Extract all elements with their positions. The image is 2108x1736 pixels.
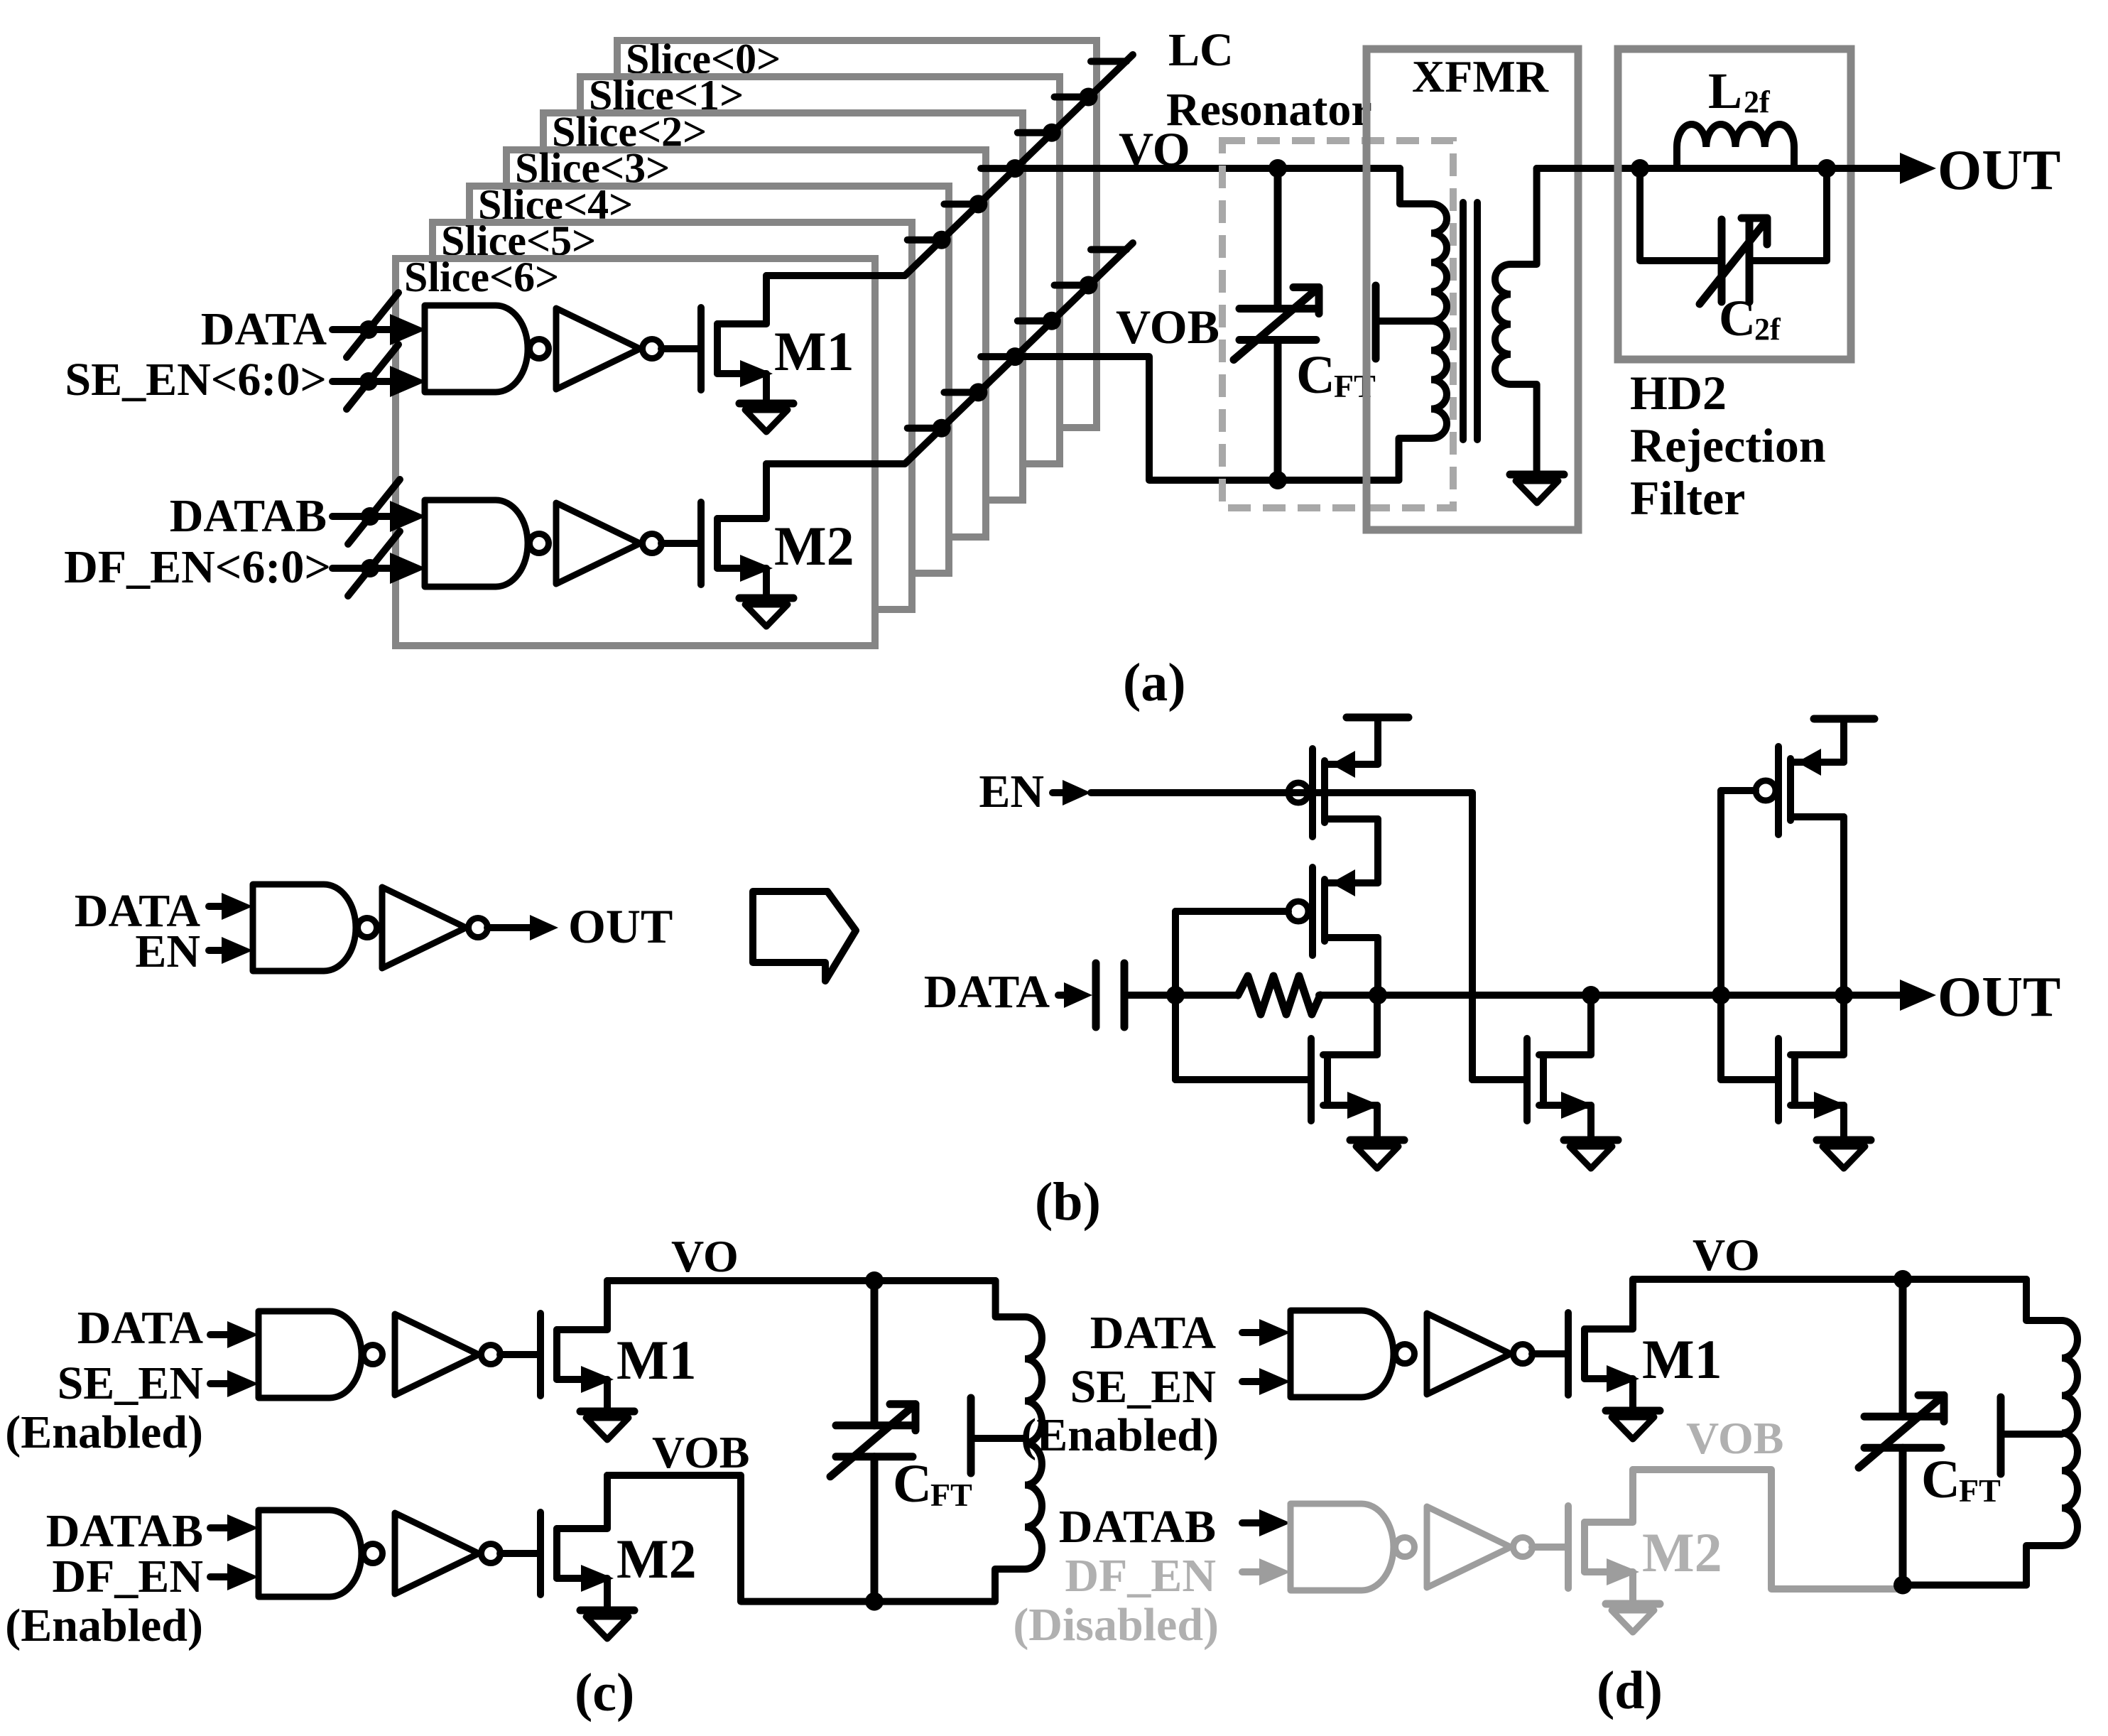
svg-text:DF_EN: DF_EN <box>1065 1550 1216 1602</box>
svg-text:(Disabled): (Disabled) <box>1013 1599 1219 1651</box>
svg-text:DF_EN<6:0>: DF_EN<6:0> <box>64 541 331 593</box>
svg-text:(b): (b) <box>1035 1172 1101 1232</box>
transistor M2 <box>701 464 773 598</box>
svg-text:SE_EN: SE_EN <box>1070 1361 1216 1413</box>
svg-text:HD2: HD2 <box>1630 366 1727 420</box>
node label DATAB (a) <box>170 490 327 542</box>
wire DATA input (a) <box>332 293 426 357</box>
capacitor DATA coupling <box>1096 963 1124 1027</box>
svg-text:VOB: VOB <box>652 1427 749 1477</box>
label CFT (c) <box>893 1454 972 1514</box>
wire SE_EN input (d) <box>1242 1368 1291 1395</box>
ground M2 (d) <box>1606 1604 1660 1632</box>
svg-text:DATA: DATA <box>201 303 327 355</box>
svg-text:DATA: DATA <box>77 1302 204 1354</box>
inverter U4d (disabled) <box>1427 1507 1533 1588</box>
wire OUT (b left) <box>487 915 558 940</box>
transformer core <box>1463 202 1477 440</box>
ground M2 <box>739 598 793 626</box>
node label OUT (a) <box>1938 139 2060 202</box>
transistor N2 (EN nmos) <box>1527 995 1594 1140</box>
label M2 <box>774 515 854 577</box>
svg-text:VOB: VOB <box>1116 300 1219 354</box>
svg-text:(Enabled): (Enabled) <box>1021 1409 1219 1461</box>
wire SE_EN input (c) <box>210 1370 259 1397</box>
nand gate U1a (DATA·SE_EN) <box>425 305 549 392</box>
label M1 (d) <box>1642 1328 1722 1390</box>
node label DF_EN (c) <box>52 1551 203 1602</box>
wire P2/N1 gate link <box>1175 911 1308 1080</box>
transistor P2 (feedback pmos) <box>1288 867 1378 955</box>
label L2f <box>1708 63 1771 119</box>
nand gate U1d <box>1291 1311 1415 1397</box>
svg-text:VO: VO <box>671 1231 739 1281</box>
net label VOB (c) <box>652 1427 749 1477</box>
wire inverter to M2 gate (c) <box>500 1550 537 1557</box>
junction gate-link node <box>1166 986 1185 1004</box>
junction VOB/CFT (c) <box>865 1593 884 1611</box>
inverter U2a <box>556 308 662 389</box>
node label EN (b left) <box>135 926 200 977</box>
inverter U2c <box>395 1314 501 1395</box>
node label DATA (d) <box>1090 1307 1217 1359</box>
node label OUT (b) <box>1938 966 2060 1029</box>
wire EN input arrow (b) <box>1053 780 1091 805</box>
slice box Slice<1> <box>580 72 1060 464</box>
svg-text:OUT: OUT <box>568 899 673 953</box>
label M2 (d) <box>1642 1521 1722 1583</box>
wire secondary bottom <box>1511 384 1537 474</box>
HD2 rejection filter box <box>1618 49 1851 359</box>
wire inverter to M2 gate (d) <box>1532 1544 1565 1551</box>
inverter U2d <box>1427 1313 1533 1394</box>
net label VOB (a) <box>1116 300 1219 354</box>
ground M2 (c) <box>580 1610 634 1639</box>
nand gate U1c <box>259 1311 383 1398</box>
capacitor primary center tap <box>1376 286 1431 359</box>
wire output inverter gates <box>1721 791 1775 1080</box>
node label (Enabled) (c1) <box>5 1406 203 1458</box>
node label SE_EN (c) <box>58 1357 203 1409</box>
wire DATAB input (a) <box>332 479 426 544</box>
wire inverter to M1 gate (d) <box>1532 1350 1565 1357</box>
nand gate U3a (DATAB·DF_EN) <box>425 500 549 587</box>
slice box Slice<0> <box>617 36 1097 428</box>
junction VO/CFT (d) <box>1894 1270 1912 1289</box>
inverter U4c <box>395 1513 501 1594</box>
panel label (a) <box>1123 653 1186 712</box>
svg-text:DF_EN: DF_EN <box>52 1551 203 1602</box>
label LC Resonator <box>1166 24 1372 136</box>
svg-text:DATAB: DATAB <box>170 490 327 542</box>
svg-text:M1: M1 <box>774 320 854 382</box>
node label DATA (b left) <box>75 885 201 937</box>
wire VOB line (a) <box>1015 357 1399 480</box>
svg-text:EN: EN <box>135 926 200 977</box>
inverter U4a <box>556 503 662 584</box>
nand gate U3c <box>259 1510 383 1597</box>
nand gate U3d (disabled) <box>1291 1504 1415 1590</box>
wire P1 drain to P2 source <box>1374 819 1381 883</box>
wire primary bottom <box>1399 438 1432 480</box>
svg-text:L: L <box>1708 63 1742 119</box>
wire DF_EN input (a) <box>332 531 426 596</box>
svg-text:(Enabled): (Enabled) <box>5 1406 203 1458</box>
power VDD PMOS P3 <box>1814 719 1874 762</box>
svg-text:Rejection: Rejection <box>1630 418 1826 472</box>
slice box Slice<2> <box>543 108 1023 500</box>
ground M1 (d) <box>1606 1411 1660 1439</box>
svg-text:DATAB: DATAB <box>46 1505 203 1557</box>
svg-text:XFMR: XFMR <box>1412 51 1549 102</box>
transistor N1 <box>1311 995 1380 1140</box>
panel label (d) <box>1597 1661 1663 1720</box>
wire P2 drain to node <box>1374 938 1381 995</box>
varactor CFT (d) <box>1859 1279 1944 1585</box>
varactor CFT (c) <box>830 1281 916 1602</box>
wire DF_EN input (d) <box>1242 1558 1291 1585</box>
transformer secondary winding <box>1495 264 1511 384</box>
svg-text:SE_EN: SE_EN <box>58 1357 203 1409</box>
net label VO (c) <box>671 1231 739 1281</box>
wire OUT arrow (b) <box>1844 980 1936 1011</box>
junction VO/CFT (c) <box>865 1271 884 1290</box>
svg-text:C: C <box>1296 345 1335 405</box>
resistor feedback <box>1238 976 1320 1014</box>
wire VO bus diagonal with slice taps <box>905 55 1133 276</box>
ground N3 <box>1817 1140 1871 1168</box>
node label DATA (c) <box>77 1302 204 1354</box>
inductor winding (d) <box>2026 1279 2077 1585</box>
svg-text:(c): (c) <box>575 1663 634 1723</box>
svg-text:SE_EN<6:0>: SE_EN<6:0> <box>65 354 327 406</box>
svg-text:M1: M1 <box>616 1329 697 1391</box>
junction VOB/CFT (d) <box>1894 1576 1912 1595</box>
svg-text:(d): (d) <box>1597 1661 1663 1720</box>
capacitor winding center tap (c) <box>971 1398 1025 1473</box>
svg-text:VO: VO <box>1693 1230 1760 1280</box>
node label OUT (b left) <box>568 899 673 953</box>
transistor M1 <box>701 276 773 403</box>
slice box Slice<6> <box>396 254 875 646</box>
node label SE_EN (d) <box>1070 1361 1216 1413</box>
svg-text:VOB: VOB <box>1686 1413 1783 1463</box>
wire main node rail (b) <box>1124 992 1844 999</box>
node label (Enabled) (c2) <box>5 1600 203 1651</box>
label CFT (a) <box>1296 345 1376 405</box>
label C2f <box>1719 290 1781 347</box>
node label DF_EN (d) <box>1065 1550 1216 1602</box>
transistor N3 (out nmos) <box>1778 995 1847 1140</box>
wire inverter to M1 gate (c) <box>500 1351 537 1358</box>
wire VO line (d) <box>1633 1276 2026 1283</box>
LC resonator dashed box <box>1222 141 1453 508</box>
svg-text:EN: EN <box>979 766 1044 818</box>
block arrow (implementation) <box>753 891 856 981</box>
inductor L2f <box>1677 124 1794 168</box>
label M1 (c) <box>616 1329 697 1391</box>
panel label (b) <box>1035 1172 1101 1232</box>
power VDD PMOS P1 <box>1347 717 1408 764</box>
junction P2 drain node <box>1369 986 1387 1004</box>
svg-text:M1: M1 <box>1642 1328 1722 1390</box>
junction L2f/C2f left <box>1631 159 1649 178</box>
svg-text:M2: M2 <box>1642 1521 1722 1583</box>
node label (Enabled) (d) <box>1021 1409 1219 1461</box>
varactor CFT (a) <box>1234 168 1319 480</box>
wire M2 drain <box>766 460 905 467</box>
svg-text:LC: LC <box>1168 24 1234 76</box>
wire VOB line (c) <box>607 1475 995 1602</box>
svg-text:DATA: DATA <box>924 966 1050 1018</box>
inductor winding (c) <box>995 1281 1042 1602</box>
svg-text:DATA: DATA <box>1090 1307 1217 1359</box>
svg-text:OUT: OUT <box>1938 139 2060 202</box>
svg-text:Filter: Filter <box>1630 471 1745 525</box>
node label (Disabled) (d) <box>1013 1599 1219 1651</box>
transistor P3 (out pmos) <box>1756 747 1844 835</box>
nand gate (b left) <box>253 884 377 971</box>
label HD2 Rejection Filter <box>1630 366 1826 525</box>
transistor M2 (d, disabled) <box>1568 1470 1639 1604</box>
inverter (b left) <box>382 887 488 968</box>
svg-text:Slice<6>: Slice<6> <box>404 254 559 300</box>
panel label (c) <box>575 1663 634 1723</box>
wire M1 drain <box>766 272 905 279</box>
junction L2f/C2f right <box>1818 159 1836 178</box>
wire secondary top to OUT <box>1511 168 1903 264</box>
wire VOB bus diagonal with slice taps <box>905 243 1133 464</box>
wire DATA input (c) <box>210 1321 259 1348</box>
wire DATA input (d) <box>1242 1319 1291 1346</box>
node label SE_EN<6:0> (a) <box>65 354 327 406</box>
svg-text:(a): (a) <box>1123 653 1186 712</box>
svg-text:2f: 2f <box>1744 85 1771 119</box>
wire DF_EN input (c) <box>210 1563 259 1590</box>
net label VO (d) <box>1693 1230 1760 1280</box>
junction N2 drain node <box>1582 986 1600 1004</box>
net label VOB (d) <box>1686 1413 1783 1463</box>
svg-text:M2: M2 <box>774 515 854 577</box>
slice box Slice<4> <box>469 181 949 573</box>
node label DATA (b) <box>924 966 1050 1018</box>
ground N1 <box>1350 1140 1404 1168</box>
wire DATA input arrow (b) <box>1058 982 1092 1008</box>
wire VO line (a) <box>1015 165 1400 172</box>
wire SE_EN input (a) <box>332 345 426 409</box>
transistor M1 (d) <box>1568 1279 1639 1411</box>
svg-text:C: C <box>893 1454 932 1514</box>
wire DATAB input (c) <box>210 1514 259 1541</box>
label CFT (d) <box>1921 1450 2001 1509</box>
wire VO to primary top <box>1400 168 1431 204</box>
net label VO (a) <box>1119 122 1190 176</box>
svg-text:FT: FT <box>930 1477 972 1513</box>
node label DF_EN<6:0> (a) <box>64 541 331 593</box>
slice box Slice<3> <box>506 145 986 537</box>
transistor P1 (EN pmos) <box>1288 749 1378 837</box>
transformer primary winding <box>1431 204 1447 438</box>
node label DATAB (c) <box>46 1505 203 1557</box>
junction VO / CFT (a) <box>1268 159 1287 178</box>
transistor M1 (c) <box>540 1281 614 1411</box>
wire VO line (c) <box>607 1277 996 1284</box>
label M1 <box>774 320 854 382</box>
ground M1 (c) <box>580 1411 634 1440</box>
label XFMR <box>1412 51 1549 102</box>
ground secondary <box>1510 474 1564 503</box>
capacitor winding center tap (d) <box>2001 1397 2062 1474</box>
wire DATA input (b left) <box>209 893 253 920</box>
label M2 (c) <box>616 1528 697 1590</box>
XFMR box <box>1367 49 1578 530</box>
wire inverter to M2 gate <box>661 540 697 547</box>
wire bottom link (d) <box>1897 1582 2026 1589</box>
node label DATAB (d) <box>1059 1501 1216 1553</box>
node label DATA (a) <box>201 303 327 355</box>
ground M1 <box>739 403 793 432</box>
svg-text:2f: 2f <box>1754 312 1781 347</box>
wire OUT arrow (a) <box>1827 153 1936 184</box>
wire EN net (b) <box>1091 793 1524 1080</box>
ground N2 <box>1564 1140 1618 1168</box>
junction OUT node (b) <box>1835 986 1853 1004</box>
transistor M2 (c) <box>540 1475 614 1610</box>
svg-text:DATAB: DATAB <box>1059 1501 1216 1553</box>
svg-text:FT: FT <box>1959 1472 2001 1509</box>
svg-text:(Enabled): (Enabled) <box>5 1600 203 1651</box>
slice box Slice<5> <box>433 217 912 609</box>
wire EN input (b left) <box>209 937 253 964</box>
node label EN (b) <box>979 766 1044 818</box>
junction VOB / CFT (a) <box>1268 471 1287 489</box>
svg-text:M2: M2 <box>616 1528 697 1590</box>
wire VOB line (d, disabled) <box>1633 1470 1897 1589</box>
varactor C2f <box>1640 168 1827 304</box>
svg-text:C: C <box>1921 1450 1960 1509</box>
svg-text:Resonator: Resonator <box>1166 84 1372 136</box>
junction inverter input node <box>1712 986 1730 1004</box>
svg-text:OUT: OUT <box>1938 966 2060 1029</box>
wire inverter to M1 gate <box>661 345 697 352</box>
svg-text:C: C <box>1719 290 1756 347</box>
wire P3 drain to OUT <box>1840 817 1847 995</box>
wire DATAB input (d) <box>1242 1509 1291 1536</box>
